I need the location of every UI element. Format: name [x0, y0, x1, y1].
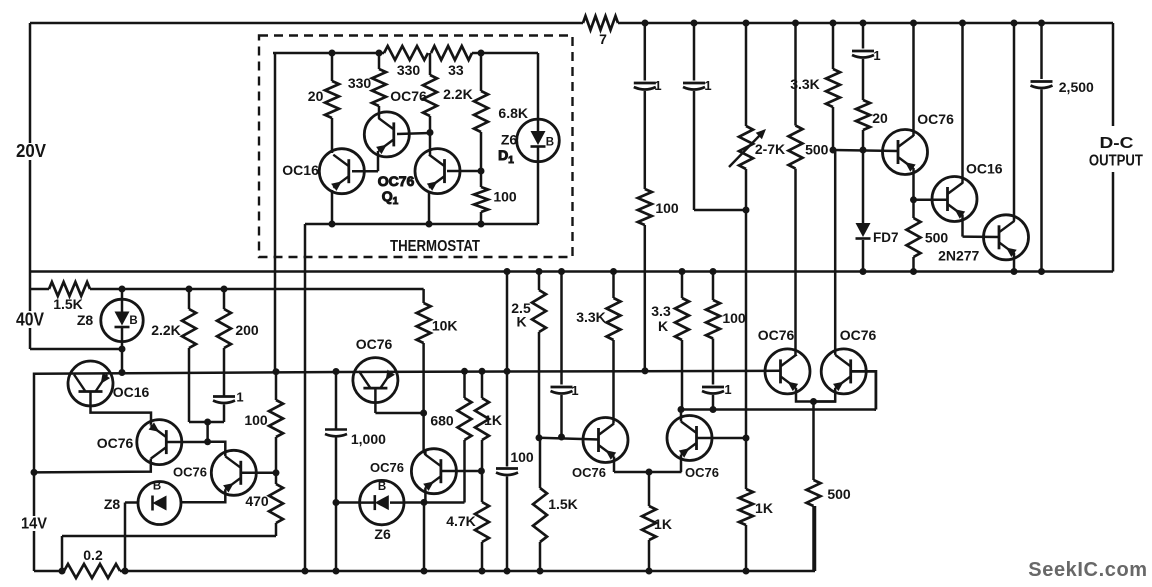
svg-text:0.2: 0.2 [83, 547, 103, 563]
svg-text:3.3: 3.3 [651, 303, 671, 319]
svg-text:7: 7 [599, 31, 607, 47]
svg-text:1K: 1K [654, 516, 672, 532]
svg-text:Q1: Q1 [382, 188, 399, 207]
svg-text:2.2K: 2.2K [443, 86, 473, 102]
svg-text:1: 1 [724, 382, 731, 397]
svg-text:470: 470 [245, 493, 269, 509]
svg-text:1K: 1K [484, 412, 502, 428]
svg-text:OC76: OC76 [840, 327, 877, 343]
svg-text:SeekIC.com: SeekIC.com [1028, 559, 1147, 581]
svg-text:1: 1 [571, 383, 578, 398]
svg-text:100: 100 [244, 412, 268, 428]
svg-text:20V: 20V [16, 140, 47, 161]
svg-text:OC76: OC76 [378, 173, 415, 189]
svg-text:OC76: OC76 [758, 327, 795, 343]
svg-text:6.8K: 6.8K [498, 105, 528, 121]
svg-text:3.3K: 3.3K [576, 309, 606, 325]
svg-text:Z8: Z8 [104, 496, 121, 512]
svg-text:1,000: 1,000 [351, 431, 386, 447]
svg-text:33: 33 [448, 62, 464, 78]
svg-text:100: 100 [493, 189, 517, 205]
svg-text:1: 1 [654, 78, 661, 93]
svg-text:40V: 40V [16, 309, 45, 330]
svg-text:FD7: FD7 [873, 230, 899, 245]
svg-text:OUTPUT: OUTPUT [1089, 153, 1143, 170]
svg-text:1: 1 [236, 390, 243, 405]
svg-text:1.5K: 1.5K [53, 296, 83, 312]
svg-text:D1: D1 [498, 147, 514, 166]
svg-text:1.5K: 1.5K [548, 496, 578, 512]
svg-text:1: 1 [873, 48, 880, 63]
svg-text:680: 680 [430, 413, 454, 429]
svg-text:330: 330 [348, 75, 372, 91]
svg-text:OC76: OC76 [173, 465, 207, 480]
svg-text:2-7K: 2-7K [755, 141, 785, 157]
svg-text:2,500: 2,500 [1059, 79, 1094, 95]
svg-text:2.2K: 2.2K [151, 322, 181, 338]
svg-text:OC16: OC16 [282, 162, 319, 178]
svg-text:100: 100 [655, 200, 679, 216]
svg-text:4.7K: 4.7K [446, 513, 476, 529]
svg-text:14V: 14V [21, 516, 48, 533]
svg-text:OC16: OC16 [113, 384, 150, 400]
svg-text:10K: 10K [432, 318, 458, 334]
svg-text:B: B [378, 481, 386, 493]
svg-text:1: 1 [704, 78, 711, 93]
svg-text:OC16: OC16 [966, 161, 1003, 177]
svg-text:K: K [658, 318, 668, 334]
svg-text:500: 500 [925, 230, 949, 246]
svg-text:OC76: OC76 [356, 336, 393, 352]
svg-text:OC76: OC76 [685, 465, 719, 480]
svg-text:Z6: Z6 [374, 526, 391, 542]
svg-text:B: B [153, 481, 161, 493]
svg-text:200: 200 [235, 322, 259, 338]
svg-text:330: 330 [397, 62, 421, 78]
svg-text:20: 20 [872, 110, 888, 126]
svg-text:2N277: 2N277 [938, 247, 979, 263]
svg-text:500: 500 [805, 142, 829, 158]
svg-text:Z8: Z8 [77, 312, 94, 328]
svg-text:K: K [516, 314, 526, 330]
svg-text:100: 100 [722, 310, 746, 326]
svg-text:3.3K: 3.3K [790, 76, 820, 92]
svg-text:B: B [129, 315, 137, 327]
svg-text:OC76: OC76 [97, 435, 134, 451]
svg-text:OC76: OC76 [572, 465, 606, 480]
svg-text:THERMOSTAT: THERMOSTAT [390, 238, 480, 255]
svg-text:500: 500 [827, 486, 851, 502]
svg-text:Z6: Z6 [501, 131, 518, 147]
svg-text:1K: 1K [755, 500, 773, 516]
svg-text:B: B [546, 136, 554, 148]
svg-text:OC76: OC76 [917, 111, 954, 127]
svg-text:OC76: OC76 [370, 460, 404, 475]
svg-text:100: 100 [510, 449, 534, 465]
svg-text:OC76: OC76 [390, 88, 427, 104]
svg-text:20: 20 [308, 88, 324, 104]
svg-text:D-C: D-C [1100, 135, 1134, 152]
